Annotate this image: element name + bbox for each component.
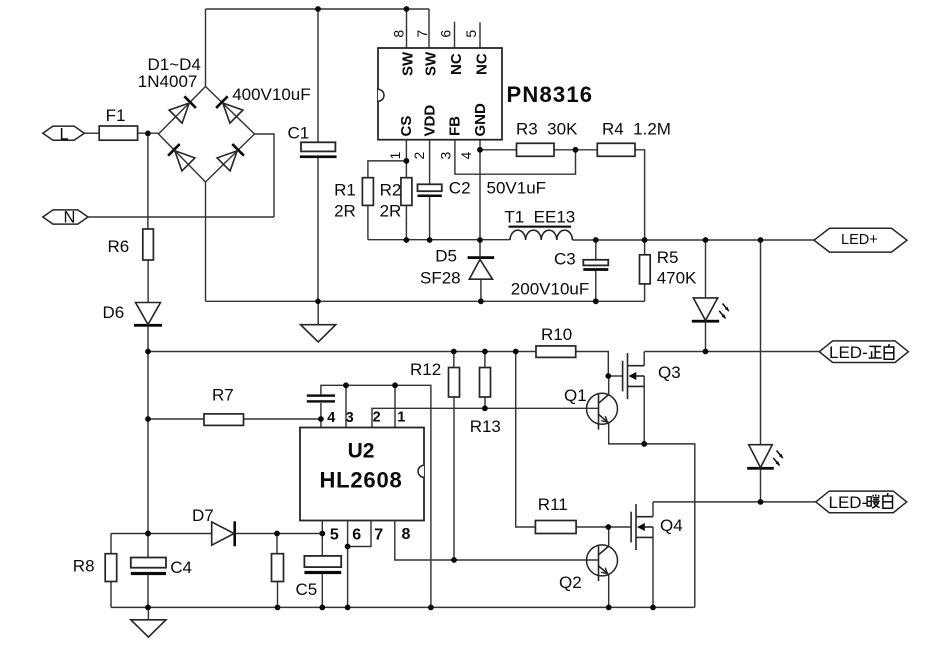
svg-text:NC: NC bbox=[448, 53, 465, 75]
svg-text:SW: SW bbox=[400, 51, 417, 76]
svg-text:1: 1 bbox=[387, 152, 403, 160]
svg-text:R11: R11 bbox=[538, 495, 568, 514]
svg-text:C5: C5 bbox=[296, 580, 318, 599]
svg-text:D5: D5 bbox=[435, 247, 457, 266]
svg-text:Q3: Q3 bbox=[658, 363, 681, 382]
svg-text:D6: D6 bbox=[103, 303, 125, 322]
svg-text:N: N bbox=[64, 209, 76, 227]
svg-text:LED-: LED- bbox=[829, 493, 868, 512]
svg-text:R5: R5 bbox=[657, 248, 679, 267]
svg-text:VDD: VDD bbox=[422, 105, 439, 137]
svg-text:R1: R1 bbox=[334, 181, 356, 200]
svg-text:D7: D7 bbox=[192, 506, 214, 525]
svg-text:R2: R2 bbox=[380, 181, 402, 200]
svg-text:R7: R7 bbox=[212, 386, 234, 405]
svg-text:CS: CS bbox=[398, 116, 415, 137]
svg-text:2R: 2R bbox=[380, 202, 402, 221]
svg-text:R10: R10 bbox=[541, 325, 572, 344]
svg-text:FB: FB bbox=[447, 116, 464, 136]
svg-text:PN8316: PN8316 bbox=[507, 82, 594, 107]
svg-text:8: 8 bbox=[402, 526, 411, 543]
svg-text:R8: R8 bbox=[73, 557, 95, 576]
svg-text:L: L bbox=[60, 125, 69, 143]
svg-text:Q4: Q4 bbox=[660, 516, 683, 535]
svg-text:2R: 2R bbox=[334, 202, 356, 221]
svg-text:1: 1 bbox=[397, 410, 405, 426]
svg-text:SW: SW bbox=[422, 51, 439, 76]
svg-text:R3 30K: R3 30K bbox=[516, 120, 578, 139]
svg-text:3: 3 bbox=[346, 410, 354, 426]
svg-text:2: 2 bbox=[411, 152, 427, 160]
svg-text:GND: GND bbox=[472, 103, 489, 137]
svg-text:Q2: Q2 bbox=[559, 573, 582, 592]
svg-text:6: 6 bbox=[352, 527, 361, 544]
svg-text:4: 4 bbox=[458, 152, 474, 160]
svg-text:F1: F1 bbox=[106, 106, 126, 125]
svg-text:470K: 470K bbox=[657, 269, 697, 288]
svg-text:C1: C1 bbox=[288, 124, 310, 143]
svg-text:NC: NC bbox=[473, 53, 490, 75]
svg-text:5: 5 bbox=[330, 527, 339, 544]
svg-text:C2: C2 bbox=[449, 179, 471, 198]
svg-text:R12: R12 bbox=[410, 360, 441, 379]
svg-text:1N4007: 1N4007 bbox=[138, 72, 198, 91]
svg-text:7: 7 bbox=[374, 527, 383, 544]
svg-text:T1 EE13: T1 EE13 bbox=[504, 208, 575, 227]
svg-text:R6: R6 bbox=[108, 237, 130, 256]
svg-text:7: 7 bbox=[414, 30, 430, 38]
svg-text:LED+: LED+ bbox=[841, 232, 878, 248]
svg-text:LED-: LED- bbox=[829, 343, 868, 362]
svg-text:6: 6 bbox=[437, 30, 453, 38]
svg-text:50V1uF: 50V1uF bbox=[487, 179, 547, 198]
svg-text:C4: C4 bbox=[170, 558, 192, 577]
svg-text:8: 8 bbox=[390, 30, 406, 38]
svg-text:5: 5 bbox=[463, 30, 479, 38]
svg-text:U2: U2 bbox=[348, 440, 375, 463]
svg-text:C3: C3 bbox=[554, 250, 576, 269]
svg-text:3: 3 bbox=[438, 152, 454, 160]
svg-text:2: 2 bbox=[373, 410, 381, 426]
svg-text:400V10uF: 400V10uF bbox=[232, 85, 310, 104]
svg-text:200V10uF: 200V10uF bbox=[511, 280, 589, 299]
svg-text:R13: R13 bbox=[470, 417, 501, 436]
svg-text:HL2608: HL2608 bbox=[319, 468, 402, 493]
svg-text:Q1: Q1 bbox=[564, 386, 587, 405]
svg-text:4: 4 bbox=[327, 410, 335, 426]
svg-text:SF28: SF28 bbox=[420, 269, 461, 288]
svg-text:R4 1.2M: R4 1.2M bbox=[602, 120, 671, 139]
